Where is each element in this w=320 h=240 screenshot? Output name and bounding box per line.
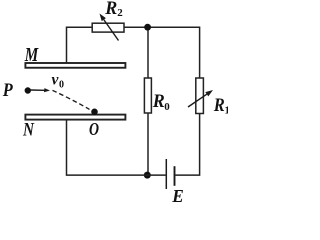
svg-text:0: 0 xyxy=(164,101,170,113)
node junction dot top xyxy=(144,24,151,31)
capacitor plate M xyxy=(25,63,125,68)
wire from R0 down to bottom junction xyxy=(147,113,149,175)
resistor R1 body xyxy=(196,78,204,114)
battery E long plate xyxy=(165,159,167,189)
wire from R2 right to top-right corner and down to R1 xyxy=(124,27,199,78)
particle start dot xyxy=(25,87,31,93)
svg-text:M: M xyxy=(24,44,39,66)
wire top-left from plate M up and right to R2 xyxy=(67,27,93,62)
dashed trajectory xyxy=(53,90,90,109)
svg-text:E: E xyxy=(171,186,183,202)
resistor R1 arrow xyxy=(188,90,213,107)
svg-text:R: R xyxy=(104,0,117,19)
resistor R2 arrow xyxy=(100,14,119,41)
svg-text:O: O xyxy=(89,119,99,139)
svg-text:1: 1 xyxy=(225,105,229,117)
svg-text:N: N xyxy=(22,120,35,141)
node junction dot bottom xyxy=(144,172,151,179)
svg-text:0: 0 xyxy=(59,80,64,91)
battery E short plate xyxy=(174,166,176,186)
resistor R2 body xyxy=(92,23,124,32)
node O dot xyxy=(91,109,98,116)
svg-text:R: R xyxy=(213,96,225,116)
capacitor plate N xyxy=(25,115,125,120)
velocity v0 arrow xyxy=(31,88,51,92)
svg-text:P: P xyxy=(2,81,13,101)
svg-text:R: R xyxy=(152,92,165,112)
bottom wire from plate N to battery xyxy=(67,121,166,176)
resistor R0 body xyxy=(144,78,151,113)
wire from R1 down to battery positive xyxy=(175,114,199,176)
wire branch down to R0 xyxy=(147,27,149,78)
svg-text:2: 2 xyxy=(117,7,123,19)
